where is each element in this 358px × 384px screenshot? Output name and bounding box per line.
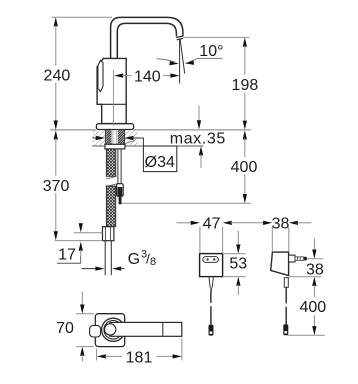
countertop cross-section bbox=[50, 130, 251, 146]
supply hose upper section bbox=[103, 149, 117, 275]
dimension 370 bbox=[43, 130, 103, 240]
plug pin base bbox=[289, 255, 295, 262]
dimension 400 right bbox=[288, 277, 327, 336]
locknut bbox=[105, 144, 125, 149]
spout outlet reference lines (10 deg) bbox=[180, 39, 185, 84]
hose fitting nut G3/8 bbox=[103, 227, 114, 241]
svg-text:53: 53 bbox=[229, 255, 247, 272]
dimension 70 bbox=[56, 292, 94, 362]
plug cable connector bbox=[283, 324, 288, 335]
svg-text:38: 38 bbox=[272, 215, 290, 232]
svg-text:Ø34: Ø34 bbox=[145, 154, 175, 171]
lever knob tip bbox=[90, 325, 101, 337]
svg-text:17: 17 bbox=[58, 247, 76, 264]
svg-text:8: 8 bbox=[150, 256, 156, 268]
lever hub bbox=[105, 324, 116, 335]
svg-text:198: 198 bbox=[232, 77, 259, 94]
riser axis extension line bbox=[112, 70, 114, 126]
plug body bbox=[271, 252, 289, 276]
dimension 38 right bbox=[289, 238, 324, 278]
lever arm bbox=[110, 322, 182, 336]
dimension 53 bbox=[223, 231, 248, 295]
G 3/8 label with arrows bbox=[81, 249, 156, 271]
svg-text:10°: 10° bbox=[199, 43, 223, 60]
threaded tube below fitting bbox=[104, 241, 106, 276]
plug cable bbox=[283, 278, 288, 335]
power box cable bbox=[209, 277, 214, 336]
dimension 38 top bbox=[263, 215, 311, 252]
handle outer ring bbox=[102, 318, 125, 341]
dimension 400 left bbox=[122, 130, 258, 203]
sensor cable from shank bbox=[117, 149, 124, 204]
faucet body bbox=[97, 58, 126, 123]
dimension 140 bbox=[114, 69, 180, 86]
dimension 240 bbox=[44, 17, 112, 130]
dimension 17 bbox=[57, 223, 83, 264]
faucet spout bbox=[111, 17, 183, 58]
O34 label box bbox=[143, 146, 176, 172]
svg-text:240: 240 bbox=[44, 67, 71, 84]
svg-text:400: 400 bbox=[299, 299, 326, 316]
dimension max.35 bbox=[170, 106, 226, 169]
supply hose lower section bbox=[106, 186, 115, 226]
svg-text:400: 400 bbox=[231, 159, 258, 176]
svg-text:70: 70 bbox=[56, 320, 74, 337]
angle 10 deg annotation bbox=[157, 43, 224, 66]
svg-text:47: 47 bbox=[203, 215, 221, 232]
dimension 198 bbox=[183, 37, 258, 129]
sensor window bbox=[98, 60, 103, 91]
hose break marks bbox=[106, 176, 117, 186]
svg-text:max.35: max.35 bbox=[170, 131, 226, 148]
power box cable connector bbox=[209, 325, 214, 336]
svg-text:G: G bbox=[128, 251, 140, 268]
hole diameter arrows (O34) bbox=[93, 136, 144, 146]
cable connector bbox=[117, 184, 124, 197]
svg-text:140: 140 bbox=[134, 69, 161, 86]
socket pill bbox=[203, 257, 219, 263]
svg-text:38: 38 bbox=[306, 261, 324, 278]
dimension 47 bbox=[177, 215, 265, 253]
handle square plate bbox=[95, 314, 124, 347]
svg-text:370: 370 bbox=[43, 178, 70, 195]
mounting shank (threaded) bbox=[105, 130, 124, 144]
handle inner ring bbox=[104, 321, 123, 340]
plug pin bbox=[295, 257, 307, 261]
svg-text:181: 181 bbox=[126, 350, 153, 367]
dimension 181 bbox=[97, 338, 182, 366]
power supply box bbox=[200, 254, 223, 277]
escutcheon plate bbox=[96, 124, 133, 130]
